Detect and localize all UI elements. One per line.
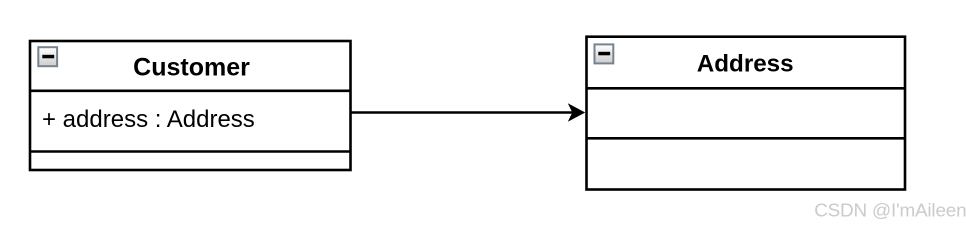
class Address outer rect [587,37,906,190]
svg-text:Customer: Customer [133,53,250,81]
Customer attribute/operation divider [30,150,351,153]
Address collapse button [595,44,614,63]
svg-text:+ address : Address: + address : Address [42,106,255,133]
class Customer outer rect [30,41,351,170]
svg-text:CSDN @I'mAileen: CSDN @I'mAileen [814,200,966,221]
Customer collapse button [38,47,57,66]
Customer title/attribute divider [30,90,351,93]
Address attribute/operation divider [587,137,906,140]
Address title/attribute divider [587,87,906,90]
association arrowhead [568,103,585,122]
association wire Customer->Address [352,111,574,114]
svg-text:Address: Address [697,50,794,77]
